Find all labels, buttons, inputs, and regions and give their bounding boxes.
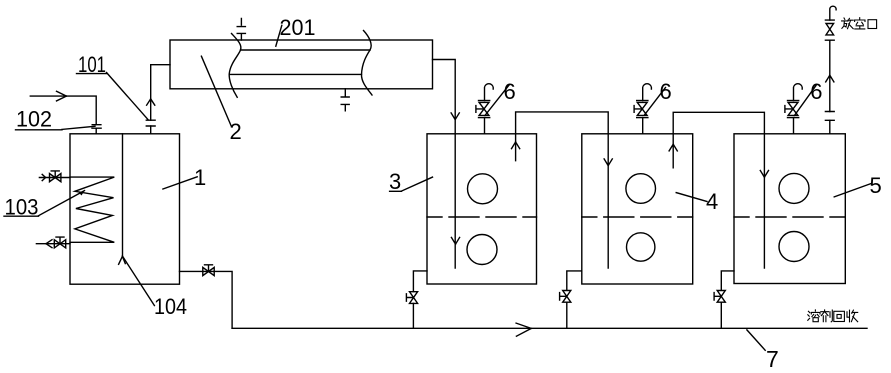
svg-text:201: 201	[280, 15, 316, 40]
tank 4 vapor line to tank 5 dip tube	[673, 112, 764, 268]
tank 4 liquid level dashed line	[582, 216, 693, 218]
svg-text:6: 6	[504, 79, 516, 104]
down arrowhead inside tank 5	[760, 171, 768, 178]
up arrowhead in tank 3 vapor line	[512, 142, 520, 149]
tank 1 shell	[70, 134, 180, 284]
underline of label 3	[390, 190, 402, 192]
down arrowhead inside tank 4	[604, 159, 612, 166]
vent valve bowtie	[826, 24, 834, 35]
tank 4 lower circle (agitator)	[627, 233, 655, 261]
nozzle flange stub on heat exchanger bottom	[341, 89, 349, 111]
tank 5 shell	[734, 134, 845, 284]
tank 4 drain valve	[560, 291, 571, 303]
down arrowhead above tank 3	[451, 113, 459, 120]
leader line for label 6 on tank 3	[485, 85, 510, 116]
coil inlet arrowhead	[42, 174, 45, 180]
flange pair on tank 1 top right (vapor)	[146, 120, 155, 126]
svg-text:104: 104	[154, 294, 187, 319]
vapor pipe tank 1 to heat exchanger	[151, 65, 170, 134]
tank 5 drain valve	[714, 291, 725, 303]
tank 5 liquid level dashed line	[734, 216, 845, 218]
leader line for label 7	[747, 330, 765, 350]
tank 1 bottom outlet pipe	[180, 271, 233, 328]
svg-text:5: 5	[870, 173, 882, 198]
vent riser line from tank 5 top	[829, 40, 831, 134]
coil outlet valve	[54, 237, 65, 248]
char rong	[808, 311, 810, 320]
char kong	[855, 18, 865, 22]
flange pair on vent riser	[825, 112, 834, 121]
leader line for label 101	[107, 73, 149, 120]
up arrowhead in tank 4 vapor line	[669, 144, 677, 151]
up arrowhead on vent riser	[826, 75, 834, 82]
tank 3 vapor line to tank 4 dip tube	[516, 112, 609, 268]
svg-text:6: 6	[660, 79, 672, 104]
up arrowhead on vapor pipe	[147, 99, 155, 105]
svg-text:3: 3	[389, 169, 401, 194]
svg-text:102: 102	[16, 107, 52, 132]
heat exchanger left break curve	[229, 34, 241, 98]
vent valve flange bars	[825, 20, 834, 40]
leader line for label 2	[201, 56, 231, 126]
flange pair on tank 1 top left (feed)	[92, 125, 101, 134]
coil inlet pipe	[39, 177, 70, 179]
text solvent recovery (rong ji hui shou)	[808, 310, 858, 322]
char fang	[842, 18, 848, 21]
leader line for label 4	[676, 193, 707, 202]
leader line for label 102	[62, 126, 95, 129]
leader line for label 104 with open arrowhead	[122, 256, 154, 306]
leader line for label 103 with arrowhead	[39, 191, 85, 216]
tank 4 vent valve assembly	[634, 84, 651, 134]
tank 1 internal partition 104	[122, 134, 124, 257]
feed inlet arrowhead	[57, 91, 67, 101]
svg-text:4: 4	[706, 189, 718, 214]
manifold flow arrowhead	[516, 323, 531, 336]
leader line for label 5	[834, 184, 871, 197]
underline of label 101	[77, 73, 108, 75]
tank 3 drain pipe	[413, 271, 427, 328]
leader line for label 201	[276, 25, 282, 46]
heating coil 103 zigzag	[70, 177, 114, 242]
heat exchanger right break curve	[361, 31, 372, 96]
heat exchanger 2 (condenser) shell	[170, 40, 433, 89]
tank 3 upper circle (agitator)	[468, 174, 498, 204]
tank 5 lower circle (agitator)	[779, 232, 809, 262]
svg-text:2: 2	[230, 119, 242, 144]
coil outlet pipe	[36, 243, 70, 245]
bottom solvent manifold line 7	[232, 327, 867, 329]
tank 3 liquid level dashed line	[427, 216, 537, 218]
down arrowhead inside tank 3	[451, 237, 459, 244]
tank 3 lower circle (agitator)	[467, 235, 497, 265]
tank 4 upper circle (agitator)	[626, 174, 656, 204]
underline of label 102	[16, 129, 63, 131]
tank 5 upper circle (agitator)	[779, 173, 809, 203]
char ji	[821, 310, 829, 312]
tank 4 shell	[582, 134, 693, 284]
coil inlet valve	[50, 171, 61, 182]
heat exchanger inner tube upper line	[241, 49, 371, 51]
tank 1 outlet valve	[203, 265, 214, 276]
text vent port (fang kong kou)	[842, 18, 877, 29]
leader line for label 6 on tank 5	[795, 86, 817, 116]
underline of label 103	[4, 215, 39, 217]
heat exchanger inner tube lower line	[229, 73, 361, 75]
tank 3 shell	[427, 134, 537, 284]
vent hook outlet	[830, 6, 836, 20]
heat exchanger outlet pipe to tank 3 dip tube	[433, 60, 456, 269]
svg-text:7: 7	[766, 346, 779, 372]
tank 5 drain pipe	[721, 271, 734, 328]
tank 3 drain valve	[406, 292, 417, 304]
char kou	[868, 20, 877, 29]
tank 5 vent valve assembly	[785, 84, 802, 134]
leader line for label 1	[163, 177, 197, 189]
coil outlet arrowhead	[46, 240, 52, 248]
leader line for label 6 on tank 4	[644, 88, 665, 116]
feed inlet line 102	[30, 96, 96, 124]
char hui	[834, 311, 845, 321]
leader line for label 3	[401, 177, 432, 191]
tank 3 vent valve assembly	[476, 84, 493, 134]
nozzle flange stub on heat exchanger top	[237, 19, 245, 41]
tank 4 drain pipe	[567, 271, 582, 328]
char shou	[847, 310, 850, 322]
